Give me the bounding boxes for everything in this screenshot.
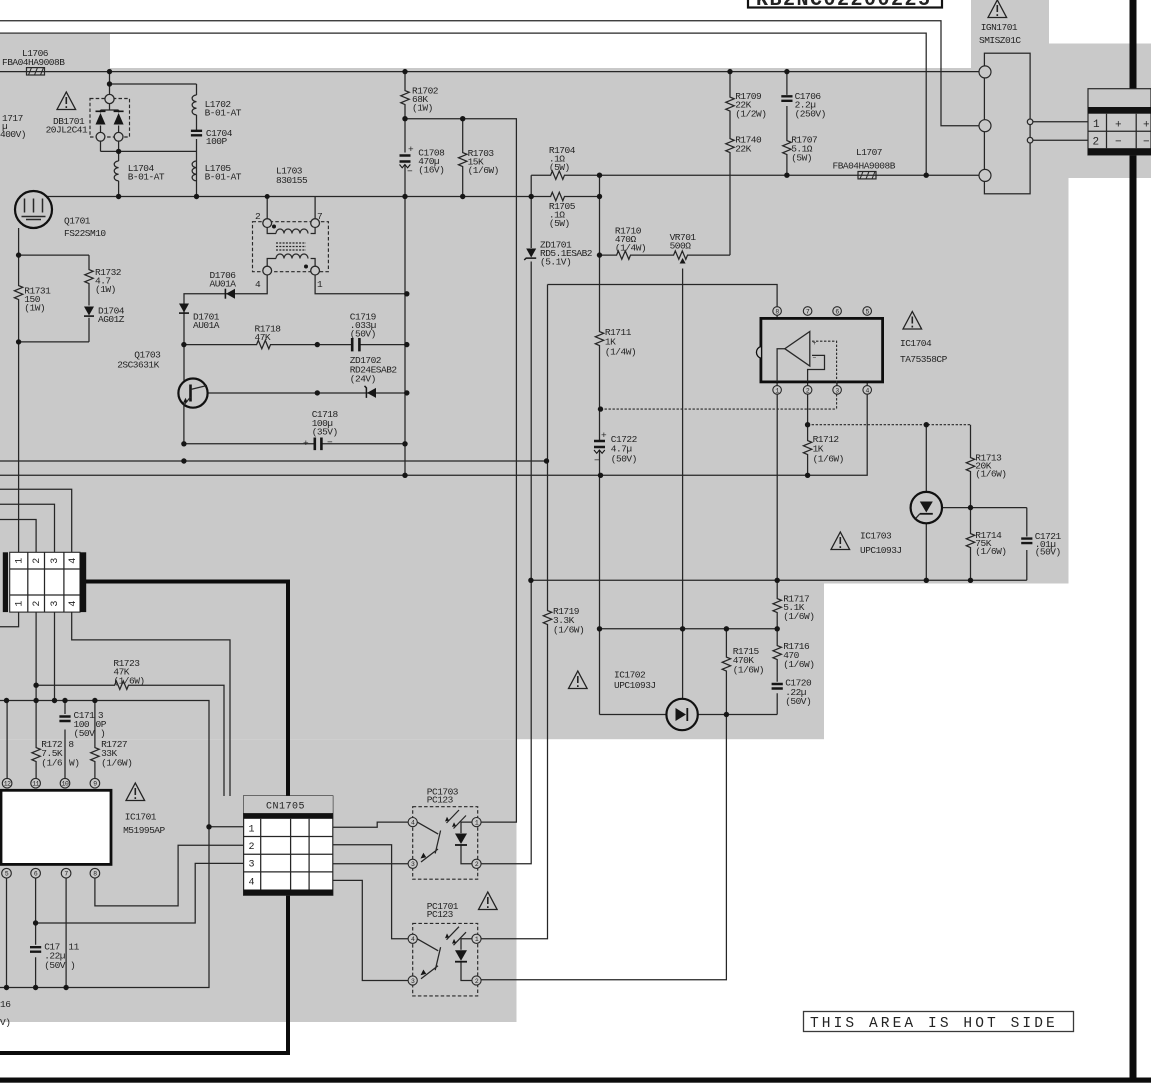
svg-text:22K: 22K bbox=[735, 144, 751, 155]
svg-text:−: − bbox=[594, 455, 600, 466]
svg-text:+: + bbox=[303, 438, 309, 449]
svg-text:2: 2 bbox=[1093, 137, 1100, 149]
svg-text:830155: 830155 bbox=[276, 175, 308, 186]
svg-text:UPC1093J: UPC1093J bbox=[860, 545, 902, 556]
svg-text:IC1701: IC1701 bbox=[125, 812, 157, 823]
svg-text:): ) bbox=[100, 728, 105, 739]
svg-text:(5.1V): (5.1V) bbox=[540, 257, 571, 268]
svg-text:(5W): (5W) bbox=[549, 162, 570, 173]
svg-text:(50V): (50V) bbox=[350, 329, 376, 340]
svg-text:AU01A: AU01A bbox=[193, 320, 220, 331]
svg-text:(1/6W): (1/6W) bbox=[733, 665, 764, 676]
svg-text:(1/4W): (1/4W) bbox=[615, 243, 646, 254]
svg-text:THIS AREA IS HOT SIDE: THIS AREA IS HOT SIDE bbox=[810, 1016, 1058, 1032]
svg-text:2: 2 bbox=[248, 842, 254, 853]
svg-text:(1/4W): (1/4W) bbox=[605, 347, 636, 358]
svg-text:−: − bbox=[407, 166, 413, 177]
svg-text:UPC1093J: UPC1093J bbox=[614, 680, 656, 691]
svg-text:1: 1 bbox=[248, 824, 254, 835]
svg-text:+: + bbox=[601, 430, 607, 441]
svg-text:IC1702: IC1702 bbox=[614, 670, 646, 681]
svg-text:8: 8 bbox=[68, 739, 74, 750]
svg-text:(250V): (250V) bbox=[795, 109, 826, 120]
svg-text:(1/6W): (1/6W) bbox=[101, 758, 132, 769]
svg-text:CN1705: CN1705 bbox=[266, 802, 305, 813]
svg-text:1: 1 bbox=[1093, 119, 1100, 131]
svg-text:(1/6W): (1/6W) bbox=[783, 611, 814, 622]
svg-text:7: 7 bbox=[317, 211, 322, 222]
svg-text:(1/6W): (1/6W) bbox=[783, 659, 814, 670]
svg-text:4: 4 bbox=[248, 877, 254, 888]
svg-text:V): V) bbox=[0, 1017, 10, 1028]
svg-text:47K: 47K bbox=[255, 332, 271, 343]
svg-text:PC123: PC123 bbox=[427, 795, 454, 806]
svg-text:(50V): (50V) bbox=[785, 696, 811, 707]
svg-text:(50V): (50V) bbox=[611, 454, 637, 465]
svg-text:(1W): (1W) bbox=[412, 103, 433, 114]
svg-text:+: + bbox=[408, 144, 414, 155]
svg-text:AG01Z: AG01Z bbox=[98, 314, 125, 325]
svg-text:(1/6W): (1/6W) bbox=[553, 625, 584, 636]
svg-text:11: 11 bbox=[32, 781, 39, 788]
svg-text:(5W): (5W) bbox=[791, 153, 812, 164]
svg-text:B-01-AT: B-01-AT bbox=[205, 108, 242, 119]
svg-text:(1/2W): (1/2W) bbox=[735, 109, 766, 120]
svg-text:4: 4 bbox=[68, 601, 79, 607]
svg-text:W): W) bbox=[69, 758, 79, 769]
svg-text:3: 3 bbox=[50, 558, 61, 564]
svg-text:B-01-AT: B-01-AT bbox=[205, 172, 242, 183]
svg-text:FS22SM10: FS22SM10 bbox=[64, 228, 106, 239]
svg-text:11: 11 bbox=[68, 942, 79, 953]
svg-text:1: 1 bbox=[15, 558, 26, 564]
svg-text:20JL2C41: 20JL2C41 bbox=[46, 125, 88, 136]
svg-text:(16V): (16V) bbox=[418, 165, 444, 176]
svg-text:400V): 400V) bbox=[0, 129, 26, 140]
svg-text:−: − bbox=[327, 437, 333, 448]
svg-text:10: 10 bbox=[62, 781, 69, 788]
svg-text:3: 3 bbox=[50, 601, 61, 607]
svg-text:IC1703: IC1703 bbox=[860, 531, 892, 542]
svg-text:2: 2 bbox=[32, 558, 43, 564]
svg-text:(1W): (1W) bbox=[95, 284, 116, 295]
svg-text:PC123: PC123 bbox=[427, 909, 454, 920]
svg-text:L1707: L1707 bbox=[856, 147, 882, 158]
svg-text:(50V: (50V bbox=[44, 960, 66, 971]
svg-text:SMISZ01C: SMISZ01C bbox=[979, 35, 1021, 46]
svg-text:16: 16 bbox=[0, 999, 11, 1010]
svg-text:1: 1 bbox=[15, 601, 26, 607]
svg-text:M51995AP: M51995AP bbox=[123, 825, 165, 836]
svg-text:TA75358CP: TA75358CP bbox=[900, 354, 948, 365]
svg-text:FBA04HA9008B: FBA04HA9008B bbox=[833, 161, 896, 172]
svg-text:2: 2 bbox=[32, 601, 43, 607]
svg-text:(1/6W): (1/6W) bbox=[113, 676, 144, 687]
svg-text:AU01A: AU01A bbox=[210, 279, 237, 290]
svg-text:(50V): (50V) bbox=[1035, 547, 1061, 558]
svg-text:IGN1701: IGN1701 bbox=[981, 22, 1018, 33]
svg-text:4: 4 bbox=[68, 558, 79, 564]
svg-text:12: 12 bbox=[4, 781, 11, 788]
svg-text:(1W): (1W) bbox=[24, 303, 45, 314]
svg-text:−: − bbox=[1115, 137, 1122, 149]
svg-text:−: − bbox=[1143, 137, 1150, 149]
svg-text:1: 1 bbox=[317, 279, 323, 290]
svg-text:KB2NC02200225: KB2NC02200225 bbox=[756, 0, 932, 12]
svg-text:2SC3631K: 2SC3631K bbox=[117, 360, 159, 371]
svg-text:FBA04HA9008B: FBA04HA9008B bbox=[2, 57, 65, 68]
svg-text:B-01-AT: B-01-AT bbox=[128, 172, 165, 183]
svg-text:(1/6W): (1/6W) bbox=[813, 454, 844, 465]
svg-text:3: 3 bbox=[248, 860, 254, 871]
svg-text:(5W): (5W) bbox=[549, 218, 570, 229]
svg-text:(1/6W): (1/6W) bbox=[468, 165, 499, 176]
svg-text:4: 4 bbox=[255, 279, 261, 290]
svg-text:(1/6W): (1/6W) bbox=[975, 546, 1006, 557]
svg-text:(1/6W): (1/6W) bbox=[975, 469, 1006, 480]
svg-text:Q1701: Q1701 bbox=[64, 216, 91, 227]
svg-text:+: + bbox=[1115, 119, 1122, 131]
svg-text:(35V): (35V) bbox=[312, 427, 338, 438]
svg-text:(1/6: (1/6 bbox=[41, 758, 63, 769]
svg-text:IC1704: IC1704 bbox=[900, 338, 932, 349]
svg-text:2: 2 bbox=[255, 211, 261, 222]
svg-text:(24V): (24V) bbox=[350, 374, 376, 385]
svg-text:500Ω: 500Ω bbox=[670, 241, 692, 252]
svg-text:+: + bbox=[1143, 119, 1150, 131]
svg-text:100P: 100P bbox=[206, 136, 228, 147]
svg-text:(50V: (50V bbox=[74, 728, 96, 739]
svg-text:): ) bbox=[70, 960, 75, 971]
